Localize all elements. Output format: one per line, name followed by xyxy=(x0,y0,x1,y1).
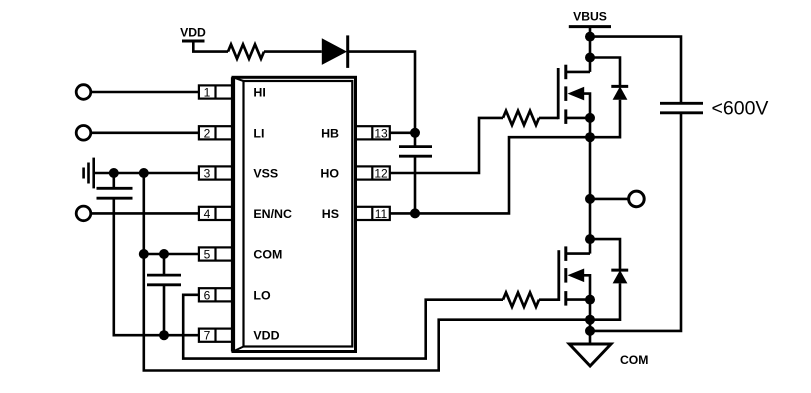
wire VBUS to bus capacitor xyxy=(590,37,681,104)
wire C1 bottom to VDD row xyxy=(114,198,199,335)
wire switch node to output terminal xyxy=(590,198,629,201)
node VDD-C2 junction xyxy=(159,330,169,340)
pin 4 box xyxy=(199,207,234,221)
node Q2 drain junction xyxy=(585,234,595,244)
VBUS rail bar xyxy=(569,25,611,28)
resistor R1 (bootstrap) xyxy=(228,44,264,58)
wire COM pin to VSS-COM rail xyxy=(144,253,199,256)
wire Q1 source to switch node xyxy=(589,118,592,199)
svg-text:HB: HB xyxy=(321,126,339,140)
node HS bootstrap junction xyxy=(410,208,420,218)
wire HS pin to switch node xyxy=(390,137,590,213)
terminal switch output xyxy=(629,191,645,207)
node Q2 source junction xyxy=(585,295,595,305)
svg-text:COM: COM xyxy=(253,248,282,262)
ground COM symbol xyxy=(569,344,611,366)
svg-text:HI: HI xyxy=(253,86,265,100)
terminal LI input xyxy=(76,126,91,141)
svg-text:12: 12 xyxy=(374,167,388,181)
wire switch node to Q2 drain xyxy=(589,199,592,254)
terminal EN input xyxy=(76,206,91,221)
node VSS-C1 junction xyxy=(109,168,119,178)
svg-text:HS: HS xyxy=(322,207,339,221)
svg-text:13: 13 xyxy=(374,126,388,140)
wire VBUS to Q1 drain xyxy=(589,27,592,72)
pin 2 box xyxy=(199,126,234,140)
node bus cap return junction xyxy=(585,326,595,336)
svg-text:6: 6 xyxy=(204,288,211,302)
resistor R3 (low-side gate) xyxy=(503,293,539,307)
pin 7 box xyxy=(199,329,234,343)
svg-text:VDD: VDD xyxy=(180,26,206,40)
svg-text:LO: LO xyxy=(253,288,271,302)
svg-text:HO: HO xyxy=(320,167,339,181)
node COM rail junction xyxy=(139,249,149,259)
node Q1 source junction xyxy=(585,113,595,123)
node VBUS-cap junction xyxy=(585,32,595,42)
svg-text:VBUS: VBUS xyxy=(573,10,607,24)
pin 12 box xyxy=(356,166,390,180)
wire Q2 source to ground xyxy=(589,300,592,344)
diode D1 (bootstrap) xyxy=(322,35,348,68)
IC U1 body xyxy=(233,77,356,351)
svg-text:COM: COM xyxy=(620,353,648,367)
svg-text:EN/NC: EN/NC xyxy=(253,207,292,221)
wire HB pin to bootstrap node xyxy=(390,132,415,135)
pin 5 box xyxy=(199,247,234,261)
wire D1 to HB node xyxy=(348,52,415,133)
pin 3 box xyxy=(199,166,234,180)
VDD rail bar xyxy=(182,40,205,43)
pin 6 box xyxy=(199,288,234,302)
diode D2 (Q1 body diode) xyxy=(590,58,628,138)
pin 13 box xyxy=(356,126,390,140)
svg-text:<600V: <600V xyxy=(712,98,769,120)
wire COM return bus (VSS rail to power ground) xyxy=(144,173,590,371)
node VSS-COM junction xyxy=(139,168,149,178)
wire HO pin to high-side gate resistor xyxy=(390,118,503,173)
capacitor C3 (bootstrap) xyxy=(399,133,432,214)
svg-text:4: 4 xyxy=(204,207,211,221)
capacitor C1 (VDD-VSS bypass) xyxy=(97,173,133,198)
wire R2 to Q1 gate xyxy=(539,117,558,120)
node HB bootstrap junction xyxy=(410,128,420,138)
wire bus cap bottom to COM node xyxy=(590,113,681,331)
wire EN input to pin 4 xyxy=(91,212,199,215)
transistor Q1 (high-side MOSFET) xyxy=(558,65,590,124)
node switch output junction xyxy=(585,194,595,204)
pin 11 box xyxy=(356,207,390,221)
svg-text:LI: LI xyxy=(253,126,264,140)
svg-text:7: 7 xyxy=(204,329,211,343)
wire LI input to pin 2 xyxy=(91,132,199,135)
terminal HI input xyxy=(76,85,91,100)
svg-text:VSS: VSS xyxy=(253,167,278,181)
ground (earth) symbol left xyxy=(84,158,94,189)
wire LO pin to low-side gate resistor xyxy=(183,295,503,359)
node HS junction xyxy=(585,132,595,142)
resistor R2 (high-side gate) xyxy=(503,111,539,125)
svg-text:VDD: VDD xyxy=(253,329,279,343)
diode D3 (Q2 body diode) xyxy=(590,239,628,320)
svg-text:5: 5 xyxy=(204,248,211,262)
capacitor C4 (bus <600V) xyxy=(660,103,703,113)
node Q1 drain junction xyxy=(585,53,595,63)
node COM return junction xyxy=(585,315,595,325)
wire VDD rail to R1 xyxy=(193,41,228,52)
node COM-C2 junction xyxy=(159,249,169,259)
wire R1 to D1 xyxy=(264,50,322,53)
svg-text:1: 1 xyxy=(204,86,211,100)
wire ground to pin 3 (VSS) xyxy=(94,172,199,175)
capacitor C2 (VDD-COM bypass) xyxy=(147,254,181,335)
svg-text:2: 2 xyxy=(204,126,211,140)
wire R3 to Q2 gate xyxy=(539,298,559,301)
svg-text:11: 11 xyxy=(375,207,388,221)
svg-text:3: 3 xyxy=(204,167,211,181)
wire HI input to pin 1 xyxy=(91,91,199,94)
pin 1 box xyxy=(199,85,234,99)
transistor Q2 (low-side MOSFET) xyxy=(559,246,590,305)
